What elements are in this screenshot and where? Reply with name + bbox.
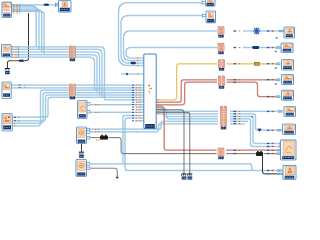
pin squares [87, 103, 90, 170]
wire [121, 16, 202, 64]
connector [252, 46, 259, 49]
component box B5 [2, 114, 12, 132]
wire [12, 93, 144, 124]
wire [230, 117, 281, 144]
component box B7 [77, 127, 87, 144]
wire [263, 156, 284, 174]
wire [90, 164, 252, 171]
connector [44, 3, 59, 8]
inline connector [219, 76, 225, 89]
wire [12, 10, 42, 52]
ground [5, 67, 10, 74]
component box R10 [283, 165, 296, 179]
connector [19, 60, 24, 62]
connector [276, 96, 280, 98]
wire [156, 64, 217, 100]
wire [136, 109, 144, 111]
connector [276, 47, 280, 49]
wire [11, 57, 95, 90]
component box R1 [281, 43, 293, 53]
wire [156, 106, 218, 116]
wire marker dots [234, 30, 241, 154]
component box B8 [76, 160, 87, 177]
wire marker dots [267, 30, 274, 174]
wire [11, 52, 100, 95]
inline connector [221, 106, 227, 129]
splice [126, 73, 128, 75]
wire [119, 3, 202, 66]
inline connector [69, 46, 75, 61]
wire [90, 111, 144, 113]
connector [279, 30, 283, 32]
wire [11, 84, 144, 86]
connector [254, 62, 259, 65]
wire [12, 97, 144, 117]
wire [156, 107, 217, 150]
wire [156, 113, 218, 115]
wire [243, 30, 280, 32]
wire [156, 112, 190, 172]
wire [264, 153, 281, 155]
wire [90, 168, 117, 177]
connector [277, 129, 281, 131]
connector [276, 63, 280, 65]
wire [226, 153, 256, 155]
wire [12, 90, 144, 126]
component box B3 [2, 45, 12, 58]
wire [156, 82, 217, 105]
ground [79, 150, 84, 157]
wire [156, 110, 184, 172]
wire [136, 106, 144, 108]
wire marker dots [251, 37, 278, 117]
wire [156, 110, 218, 112]
wire marker dots [12, 4, 100, 140]
wire [243, 47, 277, 49]
ground [187, 172, 192, 179]
connector plug [100, 135, 108, 140]
wire [230, 120, 248, 122]
connector [202, 0, 205, 5]
wire [105, 99, 144, 101]
connector [279, 143, 283, 145]
wire [156, 109, 218, 119]
component box R3 [282, 75, 294, 85]
wire [12, 11, 45, 54]
connector [19, 4, 21, 14]
wire [12, 4, 59, 6]
connector [277, 149, 281, 151]
wire [156, 80, 217, 103]
wire [135, 120, 144, 122]
wire [123, 116, 144, 164]
wire marker dots [132, 58, 141, 122]
wire [11, 55, 97, 93]
wire [109, 138, 217, 154]
connector [17, 46, 19, 58]
connector [277, 153, 281, 155]
connector [279, 146, 283, 148]
inline connector [219, 60, 225, 71]
component box R5 [284, 27, 295, 38]
inline connector [69, 84, 75, 99]
component box T2 [206, 11, 216, 23]
wire [11, 49, 102, 97]
component box R2 [282, 60, 294, 71]
connector plug [256, 151, 263, 156]
connector [131, 62, 136, 64]
connector [277, 173, 281, 175]
wire [11, 47, 105, 100]
wire [230, 119, 281, 147]
wire [126, 48, 217, 59]
wire [12, 8, 40, 49]
component box B1 [2, 2, 12, 18]
splice [116, 177, 119, 179]
wire [230, 123, 245, 125]
component box R7 [284, 107, 296, 117]
wire [226, 149, 281, 151]
connector [276, 79, 280, 81]
wire [227, 82, 277, 96]
splice [257, 129, 261, 132]
ground [181, 172, 186, 179]
wire [124, 31, 218, 61]
wire [11, 87, 144, 89]
component box ECU [144, 54, 156, 129]
connector [278, 110, 282, 112]
wire [12, 95, 144, 121]
wire [90, 124, 218, 132]
component box B2 [59, 1, 72, 13]
inline connector [218, 27, 224, 38]
wire [121, 73, 144, 75]
wire [230, 110, 278, 112]
wire [7, 13, 28, 67]
wire [136, 101, 144, 103]
wire [12, 6, 37, 47]
component box R9 [281, 140, 297, 160]
wire [227, 63, 277, 65]
inline connector [218, 148, 224, 159]
wire [125, 118, 283, 171]
wire [90, 137, 100, 139]
connector [277, 170, 281, 172]
connector [203, 13, 206, 18]
component box R8 [283, 124, 296, 135]
inline connector [218, 43, 224, 54]
wire [227, 79, 277, 81]
wire [81, 144, 83, 151]
component box R4 [282, 90, 294, 100]
wire [90, 104, 144, 106]
splice [253, 28, 260, 35]
component box T1 [205, 0, 215, 6]
component box B4 [2, 82, 11, 99]
wire [230, 114, 283, 130]
wire marker dots [158, 99, 159, 114]
wire [90, 121, 218, 129]
component box B6 [78, 101, 88, 119]
